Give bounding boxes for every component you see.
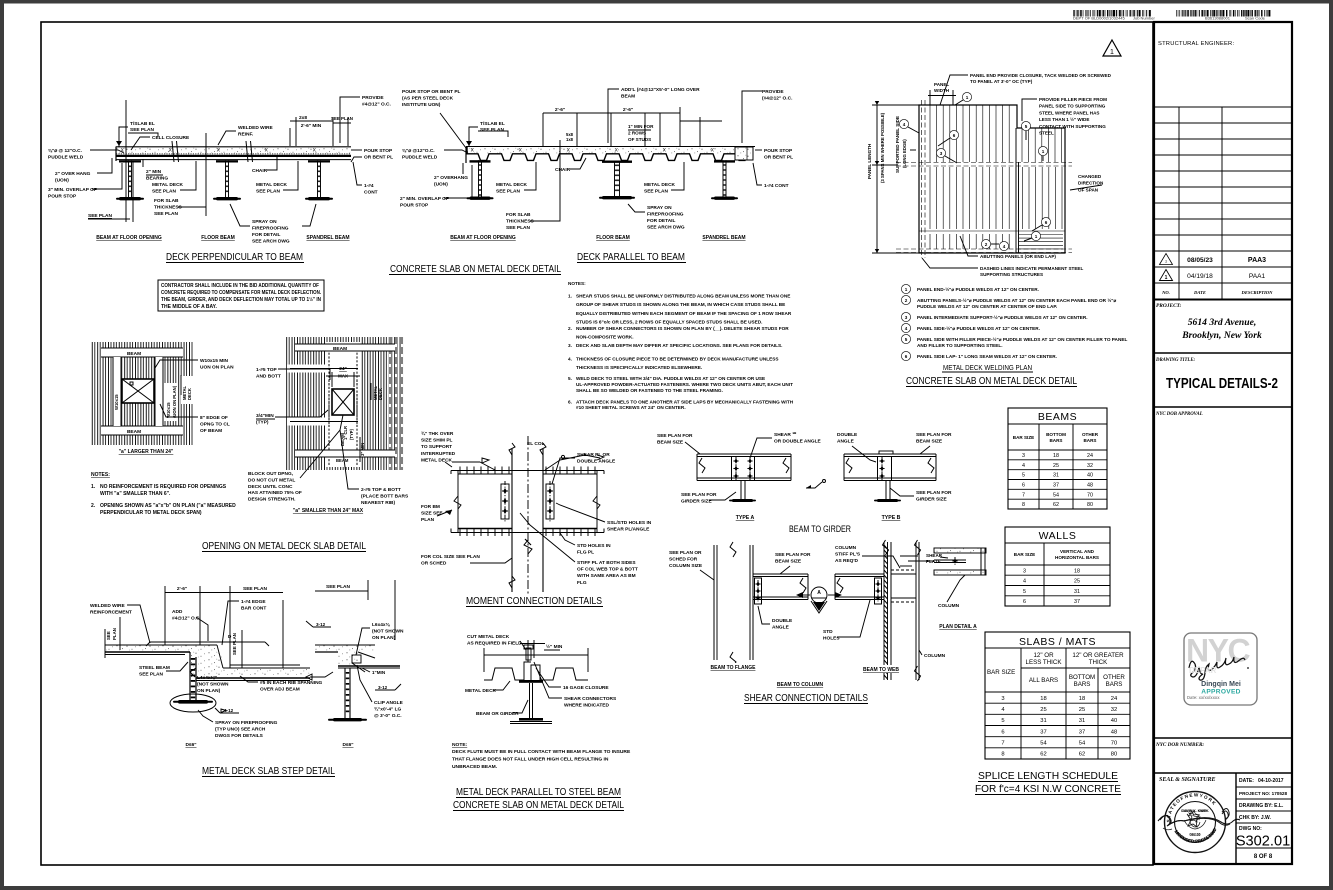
svg-text:18: 18 [1074, 568, 1080, 574]
svg-text:DECK: DECK [378, 388, 383, 400]
svg-text:DECK UNTIL CONC: DECK UNTIL CONC [248, 484, 293, 490]
svg-text:SEE ARCH DWG: SEE ARCH DWG [252, 239, 290, 245]
svg-text:BAR SIZE: BAR SIZE [1013, 435, 1034, 440]
svg-text:DECK: DECK [187, 388, 192, 400]
svg-text:SEE PLAN OR: SEE PLAN OR [669, 550, 702, 556]
svg-text:GROUP OF SHEAR STUDS IS SHOWN: GROUP OF SHEAR STUDS IS SHOWN ALONG THE … [576, 302, 785, 307]
svg-text:SHEAR ℠: SHEAR ℠ [774, 432, 797, 438]
svg-text:METAL DECK: METAL DECK [644, 182, 676, 188]
svg-text:6: 6 [1022, 483, 1025, 489]
svg-text:L4x4x⅜": L4x4x⅜" [197, 675, 217, 681]
svg-text:3-12: 3-12 [378, 685, 388, 690]
svg-text:BEAM TO GIRDER: BEAM TO GIRDER [789, 524, 851, 535]
svg-text:8 OF 8: 8 OF 8 [1254, 854, 1273, 860]
svg-text:METAL DECK: METAL DECK [152, 182, 184, 188]
svg-text:CONCRETE SLAB ON METAL DECK DE: CONCRETE SLAB ON METAL DECK DETAIL [906, 375, 1077, 387]
svg-text:DRAWING BY: E.L.: DRAWING BY: E.L. [1239, 803, 1284, 809]
svg-text:DOUBLE: DOUBLE [837, 432, 858, 438]
svg-text:8" EDGE OF: 8" EDGE OF [200, 415, 228, 421]
svg-text:25: 25 [1040, 707, 1046, 713]
svg-text:TO SUPPORT: TO SUPPORT [421, 444, 452, 450]
svg-text:6.: 6. [568, 399, 572, 404]
svg-text:37: 37 [1040, 729, 1046, 735]
svg-text:DATE: DATE [1193, 290, 1206, 295]
svg-text:6: 6 [905, 354, 908, 359]
svg-text:PROVIDE: PROVIDE [362, 95, 384, 101]
svg-text:5: 5 [1001, 718, 1004, 724]
svg-text:TYPICAL DETAILS-2: TYPICAL DETAILS-2 [1166, 375, 1278, 392]
svg-text:CELL CLOSURE: CELL CLOSURE [152, 135, 190, 141]
svg-text:1.: 1. [568, 294, 572, 299]
svg-text:OR BENT PL: OR BENT PL [364, 155, 393, 161]
svg-text:BLOCK OUT DPNG,: BLOCK OUT DPNG, [248, 471, 294, 477]
svg-text:WHERE INDICATED: WHERE INDICATED [564, 703, 609, 709]
svg-text:CLIP ANGLE: CLIP ANGLE [374, 700, 404, 706]
svg-text:ABUTTING PANELS (OR END LAP): ABUTTING PANELS (OR END LAP) [980, 254, 1056, 259]
svg-text:METAL DECK PARALLEL TO STEEL B: METAL DECK PARALLEL TO STEEL BEAM [456, 786, 621, 798]
svg-text:PUDDLE WELDS AT 12" ON CENTER: PUDDLE WELDS AT 12" ON CENTER AT CENTER … [917, 304, 1057, 309]
svg-text:SEE PLAN: SEE PLAN [506, 225, 531, 231]
svg-text:SIZE SHIM PL: SIZE SHIM PL [421, 438, 453, 444]
svg-text:(NOT SHOWN: (NOT SHOWN [197, 681, 229, 687]
svg-text:DAVIN K. KWEK: DAVIN K. KWEK [1182, 809, 1208, 813]
svg-text:FOR f'c=4 KSI N.W CONCRETE: FOR f'c=4 KSI N.W CONCRETE [975, 783, 1121, 795]
svg-text:FOR BM: FOR BM [421, 504, 440, 510]
svg-text:3.: 3. [568, 343, 572, 348]
svg-text:COLUMN: COLUMN [835, 545, 857, 551]
svg-text:2.: 2. [568, 326, 572, 331]
svg-text:SHEAR STUDS SHALL BE UNIFORMLY: SHEAR STUDS SHALL BE UNIFORMLY DISTRIBUT… [576, 294, 790, 299]
svg-text:INTERRUPTED: INTERRUPTED [421, 451, 456, 457]
svg-text:DWGS FOR DETAILS: DWGS FOR DETAILS [215, 733, 264, 739]
svg-text:STEEL WHERE PANEL HAS: STEEL WHERE PANEL HAS [1039, 110, 1100, 115]
svg-text:Scan Code: Scan Code [1245, 16, 1266, 21]
svg-text:NOTES:: NOTES: [91, 472, 110, 478]
svg-text:DECK FLUTE MUST BE IN FULL CON: DECK FLUTE MUST BE IN FULL CONTACT WITH … [452, 749, 631, 755]
svg-text:WELDED WIRE: WELDED WIRE [90, 603, 125, 609]
svg-text:ALL BARS: ALL BARS [1029, 677, 1058, 684]
svg-text:SEE PLAN FOR: SEE PLAN FOR [916, 490, 952, 496]
svg-text:FIREPROOFING: FIREPROOFING [252, 226, 289, 232]
svg-text:W10x15: W10x15 [114, 394, 119, 410]
svg-text:W10x15 MIN: W10x15 MIN [200, 358, 229, 364]
svg-text:OPENING ON METAL DECK SLAB DET: OPENING ON METAL DECK SLAB DETAIL [202, 540, 366, 552]
svg-text:SEE PLAN FOR: SEE PLAN FOR [681, 492, 717, 498]
svg-text:2.: 2. [91, 503, 96, 509]
svg-text:SEE PLAN FOR: SEE PLAN FOR [775, 552, 811, 558]
svg-text:SPLICE LENGTH SCHEDULE: SPLICE LENGTH SCHEDULE [978, 770, 1118, 782]
svg-text:THICKNESS: THICKNESS [506, 219, 535, 225]
svg-text:62: 62 [1040, 752, 1046, 758]
svg-text:CHAIR: CHAIR [252, 168, 268, 174]
svg-text:METAL DECK: METAL DECK [421, 457, 453, 463]
svg-text:7: 7 [1022, 492, 1025, 498]
svg-text:PERPENDICULAR TO METAL DECK SP: PERPENDICULAR TO METAL DECK SPAN) [100, 510, 202, 516]
svg-text:54: 54 [1053, 492, 1059, 498]
svg-text:5: 5 [1025, 124, 1028, 129]
svg-text:SSL/STD HOLES IN: SSL/STD HOLES IN [607, 520, 652, 526]
svg-text:THICK: THICK [1089, 659, 1108, 666]
svg-text:3/4"MIN: 3/4"MIN [256, 413, 274, 419]
svg-text:37: 37 [1053, 483, 1059, 489]
svg-text:1" MIN FOR: 1" MIN FOR [628, 124, 654, 129]
svg-text:HOLES: HOLES [823, 636, 840, 642]
svg-text:SEE PLAN: SEE PLAN [496, 189, 521, 195]
svg-text:2" OVERHANG: 2" OVERHANG [434, 175, 468, 181]
svg-text:SPRAY ON FIREPROOFING: SPRAY ON FIREPROOFING [215, 720, 278, 726]
svg-text:PANEL LENGTH: PANEL LENGTH [867, 143, 872, 179]
svg-text:BARS: BARS [1074, 681, 1091, 688]
svg-text:5.: 5. [568, 376, 572, 381]
svg-text:SEE PLAN: SEE PLAN [154, 211, 179, 217]
svg-text:6: 6 [953, 133, 956, 138]
svg-text:PUDDLE WELD: PUDDLE WELD [402, 155, 438, 161]
svg-text:(TYP UNO) SEE ARCH: (TYP UNO) SEE ARCH [215, 727, 266, 733]
svg-text:6: 6 [1045, 220, 1048, 225]
svg-text:REINFORCEMENT: REINFORCEMENT [90, 610, 132, 616]
svg-text:B3613088001: B3613088001 [1205, 16, 1231, 21]
svg-text:PLATE: PLATE [926, 559, 941, 564]
svg-text:BEAM OR GIRDER: BEAM OR GIRDER [476, 711, 519, 717]
svg-text:4: 4 [905, 326, 908, 331]
svg-text:OTHER: OTHER [1082, 432, 1099, 437]
svg-text:31: 31 [1040, 718, 1046, 724]
svg-text:2" OVER HANG: 2" OVER HANG [55, 171, 91, 177]
svg-text:25: 25 [1079, 707, 1085, 713]
svg-text:T/SLAB EL: T/SLAB EL [480, 121, 505, 127]
svg-text:SEE PLAN: SEE PLAN [256, 189, 281, 195]
svg-text:5614 3rd Avenue,: 5614 3rd Avenue, [1188, 317, 1257, 328]
svg-text:COLUMN SIZE: COLUMN SIZE [669, 563, 703, 569]
svg-text:SEE ARCH DWG: SEE ARCH DWG [647, 225, 685, 231]
svg-text:ON PLAN): ON PLAN) [372, 635, 396, 641]
svg-text:BAR SIZE: BAR SIZE [987, 669, 1015, 676]
svg-text:48: 48 [1111, 729, 1117, 735]
svg-text:18: 18 [1040, 696, 1046, 702]
svg-text:70: 70 [1111, 741, 1117, 747]
svg-text:D≤6": D≤6" [185, 742, 196, 748]
svg-text:"a" SMALLER THAN 24" MAX: "a" SMALLER THAN 24" MAX [293, 508, 364, 514]
svg-text:BARS: BARS [1106, 681, 1123, 688]
svg-text:PROJECT NO: 170528: PROJECT NO: 170528 [1239, 791, 1287, 796]
svg-text:INSTITUTE UON): INSTITUTE UON) [402, 102, 441, 108]
svg-text:WITH SAME AREA AS BM: WITH SAME AREA AS BM [577, 573, 636, 579]
svg-text:FOR DETAIL: FOR DETAIL [647, 218, 675, 224]
svg-text:TYPE B: TYPE B [882, 515, 901, 521]
svg-text:04-10-2017: 04-10-2017 [1258, 778, 1284, 784]
svg-text:PANEL END PROVIDE CLOSURE, T: PANEL END PROVIDE CLOSURE, TACK WELDED O… [970, 73, 1112, 78]
svg-text:UL-APPROVED POWDER-ACTUATED FA: UL-APPROVED POWDER-ACTUATED FASTENERS. W… [576, 382, 793, 387]
svg-text:WITH "a" SMALLER THAN 6".: WITH "a" SMALLER THAN 6". [100, 491, 171, 497]
svg-text:STUDS IS 6"o/c OR LESS, 2 ROWS: STUDS IS 6"o/c OR LESS, 2 ROWS OF EQUALL… [576, 319, 762, 324]
svg-text:PROJECT:: PROJECT: [1156, 303, 1182, 309]
svg-text:BEAM TO COLUMN: BEAM TO COLUMN [777, 682, 824, 688]
svg-text:ATTACH DECK PANELS TO ONE ANOT: ATTACH DECK PANELS TO ONE ANOTHER AT SID… [576, 399, 794, 404]
svg-text:SPANDREL BEAM: SPANDREL BEAM [306, 235, 349, 241]
svg-text:24: 24 [1111, 696, 1118, 702]
svg-text:D≤6": D≤6" [342, 742, 353, 748]
svg-text:CONCRETE REQUIRED TO COMPENSAT: CONCRETE REQUIRED TO COMPENSATE FOR META… [161, 290, 322, 296]
svg-text:AND FILLER TO SUPPORTING STEEL: AND FILLER TO SUPPORTING STEEL. [917, 343, 1003, 348]
svg-text:NYC: NYC [1186, 633, 1250, 669]
svg-text:DECK AND SLAB DEPTH MAY DIFFER: DECK AND SLAB DEPTH MAY DIFFER AT SPECIF… [576, 343, 782, 348]
svg-text:80: 80 [1111, 752, 1117, 758]
svg-text:METAL DECK SLAB STEP DETAIL: METAL DECK SLAB STEP DETAIL [202, 765, 335, 777]
svg-text:PROVIDE: PROVIDE [762, 89, 784, 95]
svg-text:BEAM TO WEB: BEAM TO WEB [863, 667, 899, 673]
svg-text:@ 3'-0" O.C.: @ 3'-0" O.C. [374, 713, 402, 719]
svg-text:THE MIDDLE OF A BAY.: THE MIDDLE OF A BAY. [161, 304, 217, 310]
svg-text:3: 3 [905, 315, 908, 320]
svg-text:T/SLAB EL: T/SLAB EL [130, 121, 155, 127]
svg-text:EL COL: EL COL [527, 441, 545, 447]
svg-text:2: 2 [985, 242, 988, 247]
svg-text:BARS: BARS [1049, 438, 1062, 443]
svg-text:ANGLE: ANGLE [837, 439, 855, 445]
svg-text:18: 18 [1079, 696, 1085, 702]
svg-text:OTHER: OTHER [1103, 674, 1125, 681]
svg-text:1: 1 [905, 287, 908, 292]
svg-text:54: 54 [1040, 741, 1047, 747]
svg-text:S302.01: S302.01 [1236, 834, 1290, 850]
svg-text:OPENING SHOWN AS "a"x"b" ON PL: OPENING SHOWN AS "a"x"b" ON PLAN ("a" ME… [100, 503, 236, 509]
svg-text:8: 8 [1022, 502, 1025, 508]
svg-text:1-#5 TOP: 1-#5 TOP [256, 367, 278, 373]
svg-text:AND BOTT: AND BOTT [256, 374, 281, 380]
svg-text:37: 37 [1079, 729, 1085, 735]
svg-text:METAL DECK: METAL DECK [496, 182, 528, 188]
svg-text:SEE PLAN: SEE PLAN [644, 189, 669, 195]
svg-text:STIFF PL AT BOTH SIDES: STIFF PL AT BOTH SIDES [577, 560, 636, 566]
svg-text:2'-6": 2'-6" [555, 107, 565, 113]
svg-text:ON PLAN): ON PLAN) [197, 688, 221, 694]
svg-text:POUR STOP: POUR STOP [48, 194, 77, 200]
svg-text:PLAN: PLAN [112, 628, 117, 640]
svg-text:ANGLE: ANGLE [772, 625, 790, 631]
svg-text:DECK PARALLEL TO BEAM: DECK PARALLEL TO BEAM [577, 251, 685, 263]
svg-text:BARS: BARS [1083, 438, 1096, 443]
svg-text:POUR STOP: POUR STOP [400, 203, 429, 209]
svg-text:GIRDER SIZE: GIRDER SIZE [681, 499, 712, 505]
svg-text:DATE:: DATE: [1239, 778, 1254, 784]
svg-text:THE BEAM, GIRDER, AND DECK DEF: THE BEAM, GIRDER, AND DECK DEFLECTION MA… [161, 296, 321, 303]
svg-text:62: 62 [1079, 752, 1085, 758]
svg-text:PANEL SIDE LAP- 1" LONG SEAM W: PANEL SIDE LAP- 1" LONG SEAM WELDS AT 12… [917, 354, 1057, 359]
svg-text:SEE PLAN FOR: SEE PLAN FOR [916, 432, 952, 438]
svg-text:DEPT OF BLD0002/1032445: DEPT OF BLD0002/1032445 [1073, 16, 1126, 21]
svg-text:CONT: CONT [364, 190, 378, 196]
svg-text:OF BEAM: OF BEAM [200, 428, 222, 434]
svg-text:5: 5 [905, 337, 908, 342]
svg-text:7: 7 [1001, 741, 1004, 747]
svg-text:5: 5 [1023, 589, 1026, 595]
svg-text:5: 5 [1022, 473, 1025, 479]
svg-text:FLG: FLG [577, 580, 587, 586]
svg-text:PANEL END-½"⌀ PUDDLE WELDS AT: PANEL END-½"⌀ PUDDLE WELDS AT 12" ON CEN… [917, 286, 1039, 292]
svg-text:VERTICAL AND: VERTICAL AND [1060, 549, 1095, 554]
svg-text:NYC DOB NUMBER:: NYC DOB NUMBER: [1155, 742, 1204, 748]
svg-text:BEARING: BEARING [146, 176, 168, 182]
svg-text:54: 54 [1079, 741, 1086, 747]
svg-text:W10x15: W10x15 [166, 402, 171, 418]
svg-text:SEE PLAN: SEE PLAN [139, 672, 164, 678]
svg-text:(LONG EDGE): (LONG EDGE) [902, 139, 907, 168]
svg-text:(AS PER STEEL DECK: (AS PER STEEL DECK [402, 96, 454, 102]
svg-text:PANEL SIDE TO SUPPORTING: PANEL SIDE TO SUPPORTING [1039, 104, 1106, 109]
svg-text:1: 1 [1110, 49, 1114, 56]
svg-text:½" MIN: ½" MIN [546, 643, 563, 650]
svg-text:4: 4 [903, 122, 906, 127]
svg-text:SIZE SEE: SIZE SEE [421, 511, 443, 517]
svg-text:PLAN: PLAN [421, 517, 435, 523]
svg-text:2'-6" MIN: 2'-6" MIN [301, 123, 322, 129]
svg-text:37: 37 [1074, 599, 1080, 605]
svg-text:1"MIN: 1"MIN [372, 670, 386, 675]
svg-text:CONCRETE SLAB ON METAL DECK DE: CONCRETE SLAB ON METAL DECK DETAIL [453, 799, 624, 811]
svg-text:2" MIN: 2" MIN [146, 169, 162, 175]
svg-text:80: 80 [1087, 502, 1093, 508]
svg-text:PANEL SIDE WITH FILLER PIECE-½: PANEL SIDE WITH FILLER PIECE-½"⌀ PUDDLE … [917, 336, 1127, 342]
svg-text:CHAIR: CHAIR [555, 167, 571, 173]
svg-text:1-#4 EDGE: 1-#4 EDGE [241, 599, 266, 605]
svg-text:CHANGED: CHANGED [1078, 174, 1102, 179]
svg-text:16 GAGE CLOSURE: 16 GAGE CLOSURE [563, 685, 609, 691]
svg-text:BEAM: BEAM [127, 429, 141, 435]
svg-text:4: 4 [1022, 463, 1025, 469]
svg-text:BOTTOM: BOTTOM [1046, 432, 1066, 437]
svg-text:1-#4: 1-#4 [364, 183, 374, 189]
svg-text:40: 40 [1111, 718, 1117, 724]
svg-text:NO.: NO. [1161, 290, 1170, 295]
svg-text:NOTES:: NOTES: [568, 281, 586, 286]
svg-text:CONCRETE SLAB ON METAL DECK DE: CONCRETE SLAB ON METAL DECK DETAIL [390, 263, 561, 275]
svg-text:POUR STOP: POUR STOP [764, 148, 793, 154]
svg-text:STEEL BEAM: STEEL BEAM [139, 665, 170, 671]
svg-text:(PLACE BOTT BARS: (PLACE BOTT BARS [361, 493, 409, 499]
svg-text:PAA1: PAA1 [1249, 273, 1266, 280]
svg-text:086155: 086155 [1190, 833, 1201, 837]
svg-text:PAA3: PAA3 [1248, 257, 1266, 264]
svg-text:Dingqin Mei: Dingqin Mei [1201, 681, 1241, 688]
svg-text:CONTRACTOR SHALL INCLUDE IN TH: CONTRACTOR SHALL INCLUDE IN THE BID ADDI… [161, 283, 319, 289]
svg-text:L6x4x⅜: L6x4x⅜ [372, 622, 391, 628]
svg-text:OPNG TO CL: OPNG TO CL [200, 422, 230, 428]
svg-text:DESIGN STRENGTH.: DESIGN STRENGTH. [248, 497, 295, 503]
svg-text:BAR SIZE: BAR SIZE [1014, 552, 1035, 557]
svg-text:SPRAY ON: SPRAY ON [647, 205, 672, 211]
svg-text:BEAM: BEAM [333, 346, 347, 352]
svg-text:BEAM: BEAM [336, 458, 349, 463]
svg-text:THAT FLANGE DOES NOT FALL UNDE: THAT FLANGE DOES NOT FALL UNDER HIGH CEL… [452, 756, 609, 762]
svg-text:SHEAR CONNECTION DETAILS: SHEAR CONNECTION DETAILS [744, 692, 868, 704]
svg-text:(3 SPANS MIN WHERE POSSIBLE): (3 SPANS MIN WHERE POSSIBLE) [880, 112, 885, 183]
svg-text:SEE PLAN: SEE PLAN [232, 633, 237, 655]
svg-text:FLG PL: FLG PL [577, 550, 594, 556]
svg-text:EQUALLY DISTRIBUTED WITHIN EAC: EQUALLY DISTRIBUTED WITHIN EACH SEGMENT … [576, 311, 792, 316]
svg-text:SPANDREL BEAM: SPANDREL BEAM [702, 235, 745, 241]
svg-text:CUT METAL DECK: CUT METAL DECK [467, 634, 510, 640]
svg-text:AS REQ'D: AS REQ'D [835, 558, 859, 564]
svg-text:HAS ATTAINED 75% OF: HAS ATTAINED 75% OF [248, 490, 302, 496]
svg-text:Date: xx/xx/xxxx: Date: xx/xx/xxxx [1187, 695, 1220, 700]
svg-text:SLABS / MATS: SLABS / MATS [1019, 636, 1096, 648]
svg-text:3: 3 [1022, 453, 1025, 459]
svg-text:1-#4 CONT: 1-#4 CONT [764, 183, 789, 189]
svg-text:3: 3 [1001, 696, 1004, 702]
svg-text:SPRAY ON: SPRAY ON [252, 219, 277, 225]
svg-text:(UON): (UON) [55, 178, 69, 184]
svg-text:DOUBLE: DOUBLE [772, 618, 793, 624]
svg-text:62: 62 [1053, 502, 1059, 508]
svg-text:⅜"⌀ @ 12"O.C.: ⅜"⌀ @ 12"O.C. [48, 148, 82, 154]
svg-text:2-#5 TOP & BOTT: 2-#5 TOP & BOTT [361, 487, 401, 493]
svg-text:BOTTOM: BOTTOM [1069, 674, 1095, 681]
svg-text:3" MIN: 3" MIN [360, 443, 365, 456]
svg-text:1: 1 [1165, 275, 1168, 281]
svg-text:A: A [817, 590, 821, 596]
svg-text:WELDED WIRE: WELDED WIRE [238, 125, 273, 131]
svg-text:SEE PLAN: SEE PLAN [130, 127, 155, 133]
svg-text:POUR STOP OR BENT PL: POUR STOP OR BENT PL [402, 89, 461, 95]
svg-text:STD: STD [823, 629, 833, 635]
svg-text:3-12: 3-12 [316, 622, 326, 627]
svg-text:SHALL BE SO WELDED OR FASTENED: SHALL BE SO WELDED OR FASTENED TO THE ST… [576, 388, 723, 393]
svg-text:25: 25 [1053, 463, 1059, 469]
svg-text:SEE PLAN: SEE PLAN [326, 584, 351, 590]
svg-text:BEAM: BEAM [621, 94, 635, 100]
svg-text:1" CLR: 1" CLR [343, 426, 348, 440]
svg-text:SEE PLAN: SEE PLAN [88, 213, 113, 219]
svg-text:POUR STOP: POUR STOP [364, 148, 393, 154]
svg-text:HORIZONTAL BARS: HORIZONTAL BARS [1055, 555, 1099, 560]
svg-text:AS REQUIRED IN FIELD: AS REQUIRED IN FIELD [467, 641, 522, 647]
svg-text:BEAM TO FLANGE: BEAM TO FLANGE [711, 665, 757, 671]
svg-text:1: 1 [966, 95, 969, 100]
svg-text:08/05/23: 08/05/23 [1187, 257, 1213, 264]
svg-text:SCHED FOR: SCHED FOR [669, 557, 698, 563]
svg-text:1.: 1. [91, 484, 96, 490]
svg-text:LESS THAN 1 ½" WIDE: LESS THAN 1 ½" WIDE [1039, 116, 1089, 122]
svg-text:DOUBLE ANGLE: DOUBLE ANGLE [577, 459, 616, 465]
svg-text:25: 25 [1074, 579, 1080, 585]
svg-text:PANEL SIDE-½"⌀ PUDDLE WELDS AT: PANEL SIDE-½"⌀ PUDDLE WELDS AT 12" ON CE… [917, 325, 1040, 331]
svg-text:OF STUDS: OF STUDS [628, 137, 651, 142]
svg-text:OVER ADJ BEAM: OVER ADJ BEAM [260, 687, 300, 693]
svg-text:TO PANEL AT 3'-0" OC (TYP): TO PANEL AT 3'-0" OC (TYP) [970, 79, 1033, 84]
svg-text:SHEAR CONNECTORS: SHEAR CONNECTORS [564, 696, 617, 702]
svg-text:2'-6": 2'-6" [177, 586, 187, 592]
svg-text:OR BENT PL: OR BENT PL [764, 155, 793, 161]
svg-text:STEEL: STEEL [1039, 131, 1054, 136]
svg-text:CONTACT WITH SUPPORTING: CONTACT WITH SUPPORTING [1039, 124, 1106, 129]
svg-text:STRUCTURAL ENGINEER:: STRUCTURAL ENGINEER: [1158, 41, 1234, 47]
svg-text:1: 1 [1042, 149, 1045, 154]
svg-text:FOR DETAIL: FOR DETAIL [252, 232, 280, 238]
svg-text:FLOOR BEAM: FLOOR BEAM [201, 235, 235, 241]
svg-text:4: 4 [1023, 579, 1026, 585]
svg-text:Brooklyn, New York: Brooklyn, New York [1181, 330, 1262, 341]
svg-text:SEE PLAN: SEE PLAN [480, 127, 505, 133]
svg-text:FOR SLAB: FOR SLAB [154, 198, 179, 204]
svg-text:8: 8 [1001, 752, 1004, 758]
svg-text:LESS THICK: LESS THICK [1026, 659, 1063, 666]
svg-text:BEAMS: BEAMS [1038, 411, 1077, 423]
svg-text:FOR SLAB: FOR SLAB [506, 212, 531, 218]
svg-text:BAR CONT: BAR CONT [241, 606, 266, 612]
svg-text:2'-6": 2'-6" [623, 107, 633, 113]
svg-text:70: 70 [1087, 492, 1093, 498]
svg-text:FLOOR BEAM: FLOOR BEAM [596, 235, 630, 241]
